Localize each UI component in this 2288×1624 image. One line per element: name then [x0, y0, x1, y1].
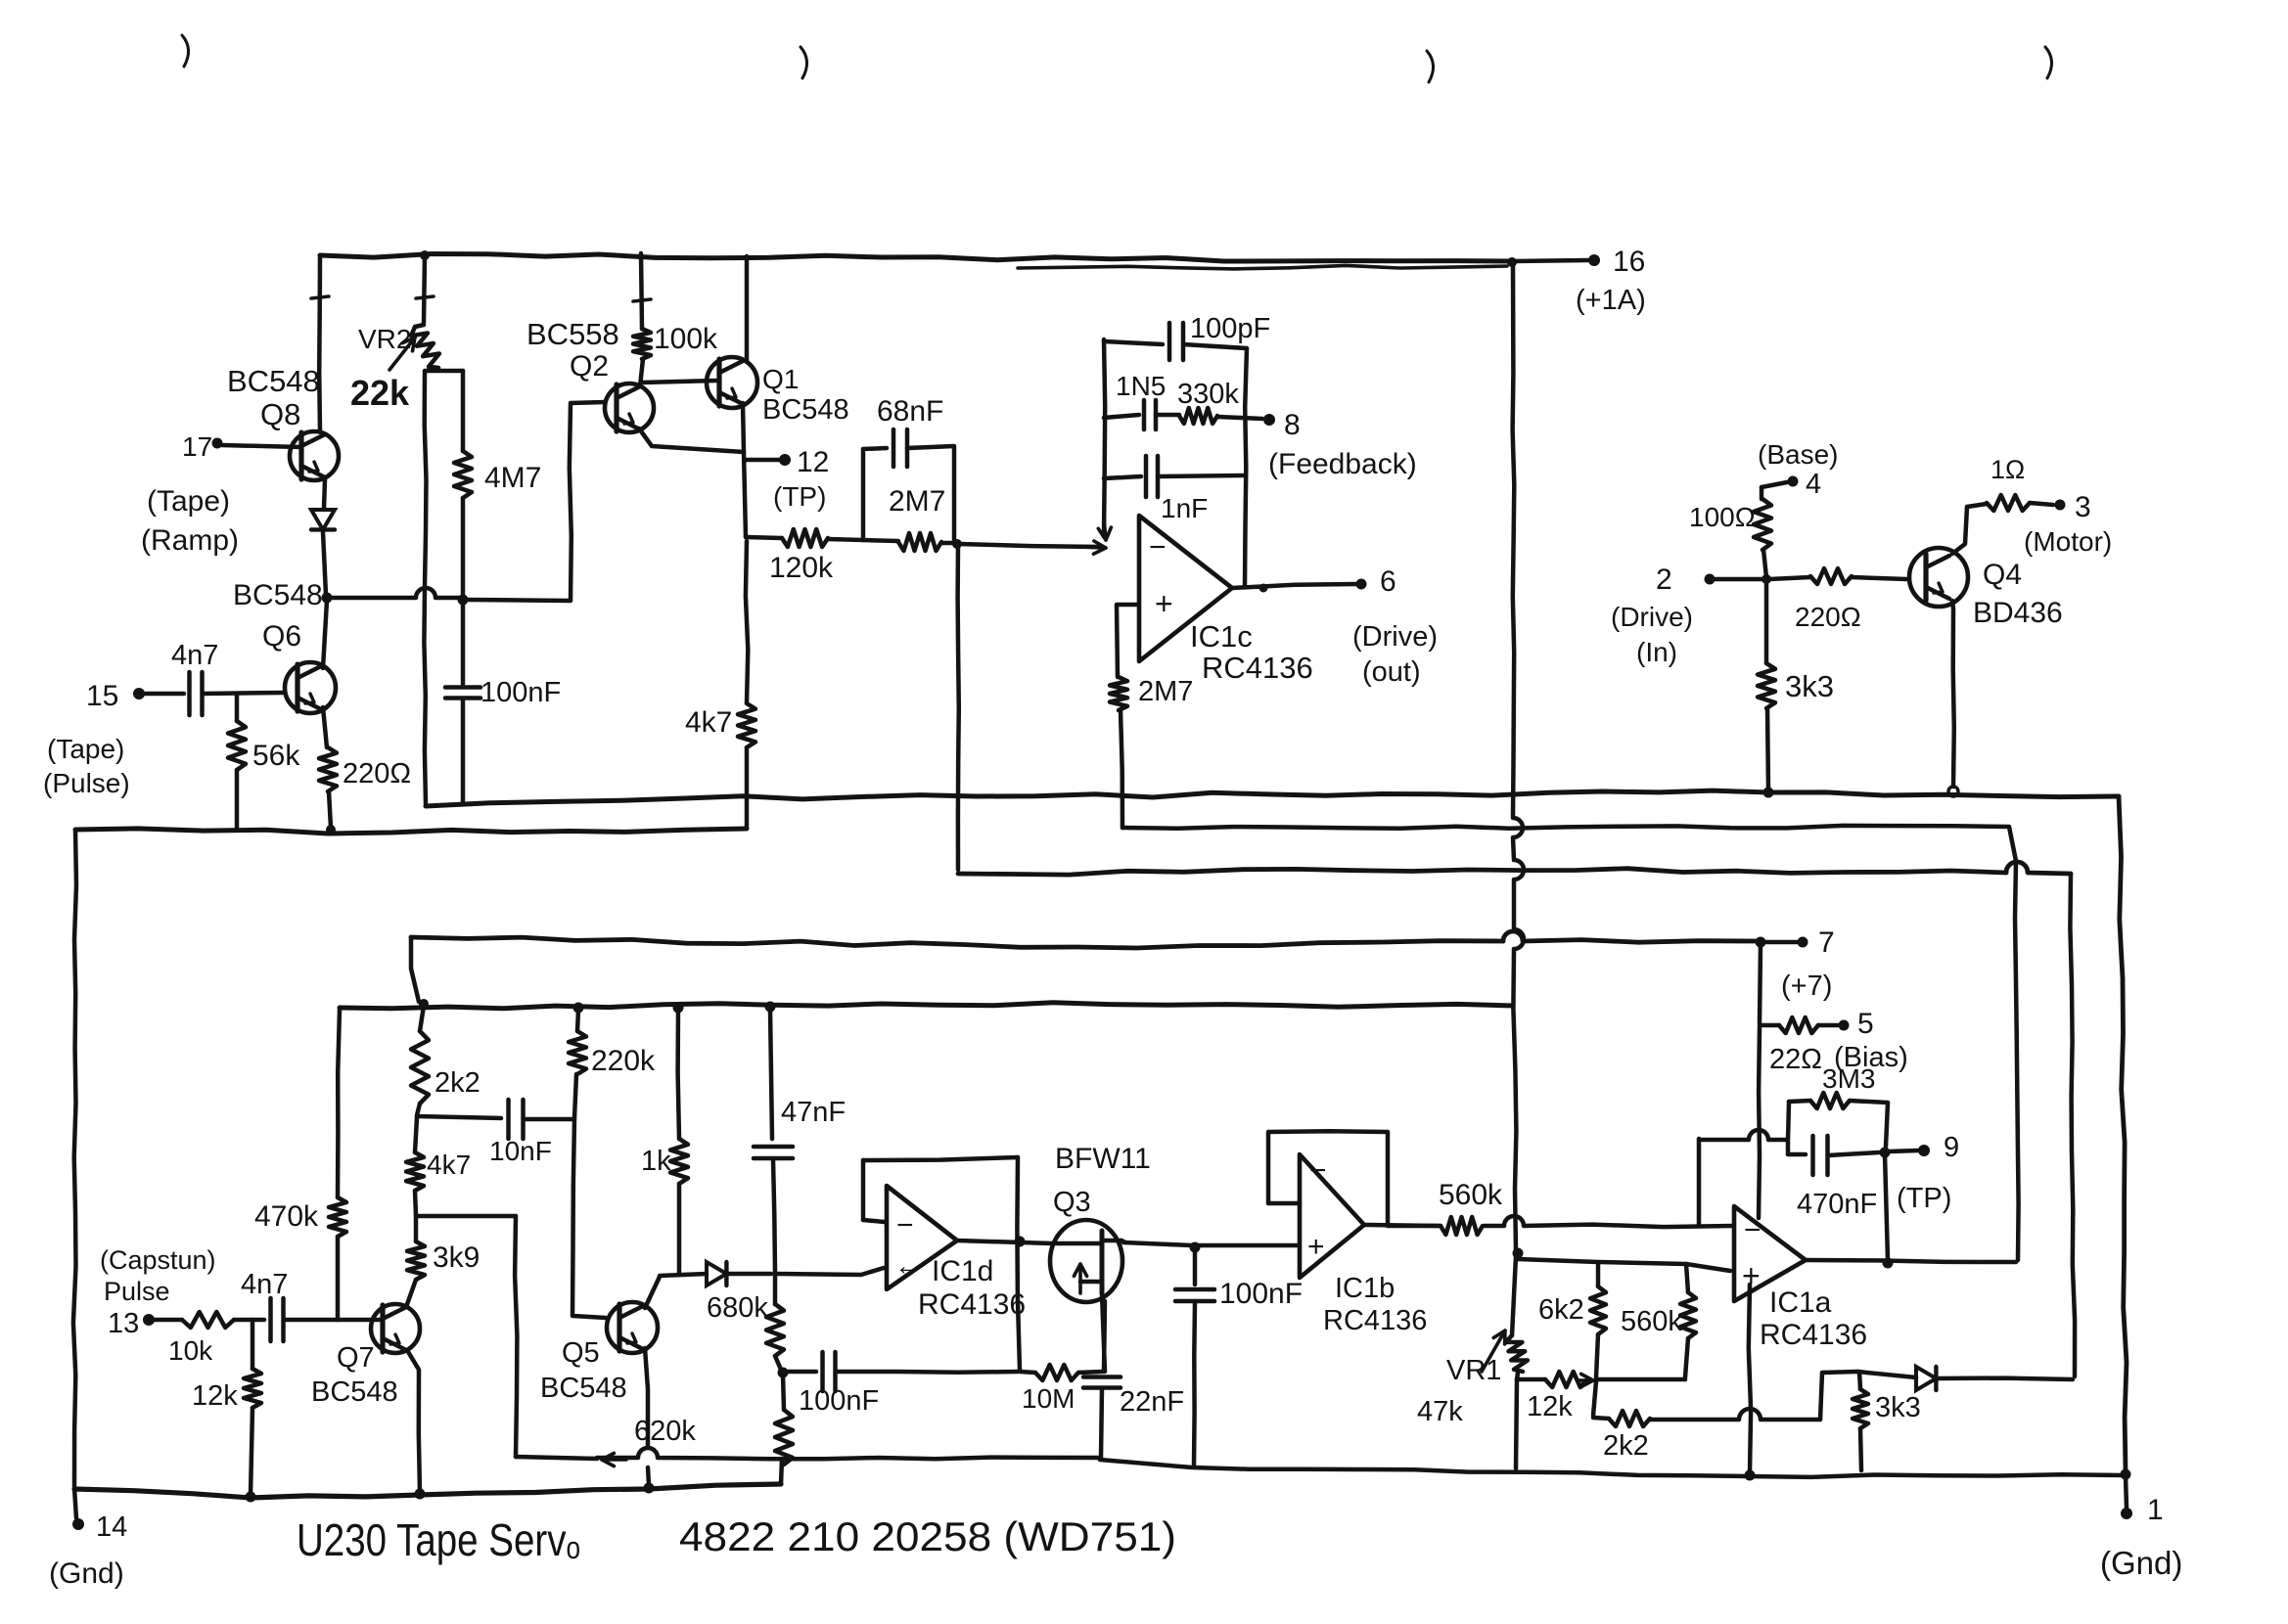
svg-text:Q2: Q2: [570, 350, 609, 383]
resistor 1R: [1967, 455, 2053, 511]
resistor 3M3: [1789, 1063, 1888, 1108]
svg-text:(Drive): (Drive): [1352, 621, 1438, 653]
resistor 330k: [1156, 379, 1239, 424]
svg-text:680k: 680k: [707, 1292, 768, 1324]
wire 2k2 to 10nF row: [417, 1104, 420, 1115]
op-amp IC1d: [887, 1186, 957, 1289]
wire bus G to bus F link: [781, 1459, 782, 1484]
label capstan pulse: [100, 1245, 216, 1306]
svg-text:4k7: 4k7: [427, 1150, 471, 1180]
resistor 120k: [746, 529, 834, 584]
wire junction to 100nF: [461, 602, 466, 684]
wire fb row1 left: [1104, 415, 1139, 418]
node bus G 12k: [246, 1492, 256, 1503]
resistor 620k: [634, 1375, 793, 1465]
node bus A bottom junction: [2121, 1469, 2131, 1480]
wire 4k7 to 3k9: [415, 1191, 416, 1216]
svg-text:(Drive): (Drive): [1611, 602, 1693, 632]
op-amp IC1c: [1139, 516, 1232, 661]
wire Q5 collector: [645, 1277, 660, 1308]
capacitor 100nF upper-left: [445, 677, 561, 708]
wire plus7 riser: [1760, 944, 1761, 1023]
wire 22nF to bus F: [1101, 1388, 1102, 1458]
wire pin7 stub: [1764, 940, 1797, 945]
node Q3 100nF junction: [1190, 1242, 1201, 1253]
svg-text:(Capstun): (Capstun): [100, 1245, 216, 1275]
svg-text:22k: 22k: [350, 373, 410, 413]
wire 16-column: [1513, 264, 1524, 1250]
label IC1a minus: [1744, 1214, 1762, 1246]
capacitor 100nF IC1b: [1175, 1248, 1303, 1466]
svg-text:4: 4: [1806, 469, 1821, 500]
wire Q8 emitter to diode: [324, 479, 325, 509]
svg-text:3: 3: [2075, 491, 2091, 523]
svg-text:(In): (In): [1636, 637, 1677, 667]
svg-text:IC1b: IC1b: [1335, 1273, 1395, 1304]
wire 330k to pin8: [1217, 417, 1262, 419]
node bus E blob: [419, 999, 429, 1009]
resistor 56k: [228, 694, 300, 772]
wire fb top right: [1183, 344, 1247, 348]
svg-text:Q4: Q4: [1983, 559, 2022, 591]
wire Q6 collector: [323, 601, 327, 668]
resistor 2k2 row: [1593, 1381, 1650, 1462]
node bus E 1k: [673, 1003, 684, 1014]
node 680k 100nF junction: [778, 1368, 789, 1378]
terminal pin 14: [49, 1511, 127, 1590]
svg-text:22Ω: 22Ω: [1769, 1044, 1822, 1075]
label IC1c plus: [1155, 586, 1173, 621]
wire IC1d fb left: [863, 1160, 885, 1222]
wire Q2 collector to 100k: [640, 359, 643, 386]
wire diode to node: [323, 532, 326, 595]
wire top +1A rail: [320, 254, 1512, 269]
mark tick a: [311, 296, 329, 298]
node 2M7/busC junction: [952, 539, 962, 549]
wire to IC1c minus input: [959, 541, 1106, 554]
resistor 100k: [633, 323, 718, 359]
resistor 12k lower: [192, 1320, 261, 1412]
transistor Q7: [371, 1304, 420, 1353]
op-amp IC1a: [1734, 1206, 1806, 1301]
capacitor 100nF lower: [785, 1352, 1018, 1417]
wire 3M3 box left: [1788, 1102, 1789, 1141]
svg-text:2M7: 2M7: [889, 485, 945, 518]
terminal pin 8: [1263, 409, 1417, 480]
wire pin2 to base node: [1715, 577, 1763, 582]
mark artifact 4: [2045, 47, 2052, 78]
wire IC1d fb right: [1017, 1157, 1020, 1370]
svg-text:6k2: 6k2: [1538, 1294, 1584, 1326]
svg-text:(Base): (Base): [1758, 439, 1838, 470]
wire Q8 collector riser: [317, 255, 322, 431]
node 220R bus junction: [326, 825, 336, 835]
label IC1c name: [1190, 619, 1313, 685]
wire Q6 emitter: [323, 707, 327, 747]
svg-text:3k3: 3k3: [1875, 1392, 1921, 1423]
svg-text:10M: 10M: [1022, 1383, 1075, 1414]
svg-text:(TP): (TP): [773, 481, 826, 512]
wire bus D: [411, 931, 1757, 1002]
svg-text:47nF: 47nF: [781, 1097, 846, 1128]
resistor 22R: [1760, 1017, 1908, 1075]
node IC1c out fb: [1259, 584, 1268, 593]
svg-text:Q7: Q7: [337, 1342, 375, 1374]
svg-text:4n7: 4n7: [241, 1269, 288, 1300]
svg-text:BC548: BC548: [233, 579, 323, 611]
svg-text:IC1a: IC1a: [1769, 1286, 1832, 1319]
op-amp IC1b: [1300, 1154, 1364, 1278]
svg-text:BC548: BC548: [540, 1373, 627, 1404]
wire 12k to bus G: [251, 1408, 252, 1496]
svg-text:470nF: 470nF: [1797, 1189, 1877, 1220]
mark tick b: [416, 296, 434, 298]
terminal pin 15: [86, 680, 145, 712]
svg-text:100nF: 100nF: [480, 677, 561, 708]
svg-text:22nF: 22nF: [1120, 1386, 1184, 1418]
svg-text:4M7: 4M7: [484, 462, 541, 494]
label title: [297, 1513, 1176, 1565]
svg-text:+: +: [1155, 586, 1173, 621]
svg-text:560k: 560k: [1439, 1179, 1503, 1211]
svg-text:BC558: BC558: [526, 317, 619, 351]
svg-text:17: 17: [182, 431, 212, 462]
svg-text:RC4136: RC4136: [1760, 1319, 1867, 1351]
svg-text:9: 9: [1944, 1132, 1959, 1163]
label tape pulse: [43, 734, 130, 798]
wire bus F: [516, 1448, 2124, 1477]
terminal pin 1: [2100, 1494, 2182, 1581]
wire IC1b fb box: [1268, 1131, 1388, 1225]
wire IC1a minus branch up: [1699, 1130, 1787, 1224]
capacitor 22nF: [1083, 1377, 1184, 1419]
mark tick c: [633, 299, 651, 301]
node plus riser bus F: [1745, 1470, 1756, 1481]
svg-text:RC4136: RC4136: [1202, 651, 1313, 685]
node rail-VR2 junction: [420, 250, 430, 260]
node Q8/Q6/ramp junction: [322, 593, 333, 604]
svg-text:IC1d: IC1d: [932, 1255, 993, 1287]
wire 10k to 4n7: [234, 1318, 264, 1323]
resistor 6k2: [1538, 1262, 1606, 1377]
wire Q1 emitter down: [743, 403, 744, 452]
wire node to Q2 base: [329, 588, 460, 598]
wire 1k to diode row: [677, 1184, 682, 1275]
wire Q2 emitter to Q1 emitter node: [639, 429, 744, 452]
terminal pin 2: [1611, 564, 1716, 667]
svg-text:−: −: [896, 1209, 914, 1241]
mark artifact 1: [182, 35, 189, 67]
resistor 560k: [1439, 1179, 1503, 1235]
wire fb row2 left: [1104, 476, 1141, 478]
wire pin4 stub: [1762, 482, 1787, 487]
svg-text:(Tape): (Tape): [147, 485, 230, 518]
wire Q1 collector riser: [745, 256, 750, 362]
wire 2M7 lower to bus B: [1121, 710, 1122, 828]
svg-text:560k: 560k: [1621, 1306, 1682, 1337]
wire Q4 emitter: [1952, 601, 1954, 787]
svg-text:620k: 620k: [634, 1416, 696, 1447]
wire pin17 to Q8 base: [222, 445, 301, 447]
wire 10M to Q3 source: [1104, 1301, 1105, 1372]
svg-text:220Ω: 220Ω: [1795, 602, 1861, 632]
wire fb row2 right: [1158, 475, 1243, 476]
svg-text:120k: 120k: [769, 552, 834, 584]
label Q5 type: [540, 1337, 627, 1404]
capacitor 4n7 upper: [171, 640, 218, 715]
svg-text:220k: 220k: [591, 1045, 656, 1077]
svg-text:16: 16: [1613, 246, 1645, 278]
svg-text:220Ω: 220Ω: [343, 758, 411, 789]
svg-text:(Gnd): (Gnd): [2100, 1545, 2182, 1581]
svg-text:100pF: 100pF: [1190, 313, 1270, 344]
svg-text:−: −: [1744, 1214, 1762, 1246]
label Q7 type: [311, 1342, 398, 1408]
terminal pin 5: [1839, 1008, 1874, 1040]
wire pin9 stub: [1889, 1150, 1918, 1151]
wire IC1c plus L: [1117, 605, 1137, 677]
resistor 1k: [641, 1010, 688, 1184]
svg-text:Q8: Q8: [260, 397, 300, 431]
resistor 680k: [766, 1276, 784, 1356]
svg-text:−: −: [1149, 531, 1167, 564]
svg-text:2: 2: [1656, 564, 1672, 596]
resistor 12k row: [1517, 1372, 1593, 1422]
wire fb right vertical: [1245, 348, 1247, 587]
svg-text:100k: 100k: [654, 323, 718, 355]
wire bias riser lower: [1759, 1027, 1760, 1218]
svg-text:10nF: 10nF: [489, 1136, 552, 1166]
svg-text:BFW11: BFW11: [1055, 1143, 1151, 1175]
label 680k: [707, 1292, 768, 1324]
resistor 220R: [319, 747, 411, 791]
svg-text:(+1A): (+1A): [1576, 285, 1646, 316]
resistor 4k7 lower: [406, 1117, 471, 1191]
node pin2 100R junction: [1762, 574, 1771, 584]
diode D Q8 emitter: [311, 510, 335, 529]
svg-text:12k: 12k: [192, 1380, 238, 1412]
node VR1 top junction: [1513, 1248, 1524, 1259]
wire Q2 collector to Q1 base: [642, 381, 716, 383]
wire 100k top riser: [641, 253, 642, 329]
svg-text:IC1c: IC1c: [1190, 619, 1253, 654]
wire Q3 source down: [1102, 1293, 1105, 1372]
svg-text:(Pulse): (Pulse): [43, 768, 130, 798]
label Q2 type: [526, 317, 619, 383]
resistor 220k: [569, 1010, 656, 1077]
wire VR2 top riser: [424, 255, 425, 323]
svg-text:100nF: 100nF: [799, 1385, 879, 1417]
label IC1d minus: [896, 1209, 914, 1241]
wire Q4 collector: [1952, 507, 1967, 554]
wire Q3 drain to IC1b plus: [1123, 1242, 1192, 1245]
svg-text:470k: 470k: [254, 1200, 319, 1233]
transistor Q6: [285, 662, 336, 713]
terminal pin 12: [773, 446, 829, 512]
wire 3M3 box right: [1886, 1103, 1888, 1147]
capacitor 1nF: [1146, 456, 1208, 523]
wire 47nF to diode row: [773, 1159, 775, 1273]
resistor 10M: [1020, 1365, 1103, 1414]
svg-text:14: 14: [96, 1511, 127, 1543]
resistor 3k3 q4: [1758, 581, 1834, 790]
wire VR2 wiper to 4M7 top: [426, 369, 463, 374]
svg-text:+: +: [1307, 1231, 1325, 1263]
terminal pin 3: [2024, 491, 2112, 557]
label IC1d name: [918, 1255, 1026, 1321]
svg-text:VR1: VR1: [1446, 1355, 1501, 1386]
svg-text:BD436: BD436: [1973, 597, 2063, 629]
terminal pin 17: [182, 431, 223, 462]
wire Q5 emitter to bus G: [648, 1467, 649, 1485]
node bus E 220k: [573, 1003, 584, 1014]
wire 220R to bus Y1: [329, 791, 331, 828]
label IC1a plus: [1742, 1258, 1761, 1293]
transistor Q1: [707, 357, 757, 408]
node 4M7/ramp wire junction: [458, 595, 469, 606]
wire fb box top: [1104, 341, 1163, 344]
wire VR1 to 12k row: [1517, 1373, 1518, 1379]
label IC1b name: [1323, 1273, 1427, 1336]
label tape ramp: [141, 485, 239, 557]
capacitor 100pF: [1169, 313, 1270, 360]
label Q3: [1053, 1143, 1151, 1218]
wire IC1c output: [1232, 584, 1356, 588]
svg-text:4k7: 4k7: [685, 706, 732, 739]
svg-text:2M7: 2M7: [1138, 676, 1193, 707]
node bus A 3k3: [1763, 788, 1774, 798]
wire IC1b output: [1364, 1225, 1439, 1226]
node IC1d out fb: [1015, 1237, 1026, 1247]
svg-text:100nF: 100nF: [1219, 1278, 1303, 1310]
svg-text:(Gnd): (Gnd): [49, 1557, 124, 1590]
svg-text:1Ω: 1Ω: [1991, 455, 2025, 484]
svg-text:3k3: 3k3: [1785, 669, 1834, 703]
svg-text:6: 6: [1380, 565, 1396, 598]
wire IC1a minus input: [1485, 1216, 1732, 1227]
svg-text:1k: 1k: [641, 1146, 671, 1177]
mark artifact 3: [1427, 51, 1434, 82]
label IC1a name: [1760, 1286, 1867, 1351]
node rail junction at 16 branch: [1507, 257, 1517, 267]
svg-text:10k: 10k: [168, 1335, 213, 1366]
wire 4n7 to Q6 base: [203, 693, 284, 694]
svg-text:68nF: 68nF: [877, 395, 943, 428]
svg-text:7: 7: [1818, 926, 1835, 959]
label IC1d plus: [894, 1250, 922, 1281]
wire diode row to IC1d plus: [777, 1268, 884, 1275]
wire fb to IC1a output: [1885, 1154, 1888, 1260]
svg-text:8: 8: [1284, 409, 1301, 441]
node IC1a out: [1883, 1258, 1894, 1269]
wire IC1b plus wire: [1195, 1243, 1297, 1248]
wire 3k9 row to bus F riser: [416, 1214, 516, 1219]
wire 2k2 to 3k3 row: [1650, 1372, 1857, 1420]
wire 4n7 to Q7 base: [284, 1318, 380, 1323]
capacitor 1n5: [1116, 371, 1166, 429]
label Q4 type: [1973, 559, 2063, 629]
svg-text:(Ramp): (Ramp): [141, 524, 239, 557]
svg-text:56k: 56k: [252, 740, 300, 772]
wire 100nF to bus A: [461, 699, 466, 804]
resistor 3k9: [407, 1216, 480, 1280]
wire left edge vertical: [73, 830, 76, 1486]
svg-text:1N5: 1N5: [1116, 371, 1166, 401]
capacitor 470nF: [1788, 1136, 1879, 1220]
wire Q5 emitter: [645, 1348, 648, 1446]
terminal pin 9: [1897, 1132, 1959, 1214]
svg-text:BC548: BC548: [762, 394, 849, 426]
resistor 220R q4: [1769, 568, 1906, 632]
terminal pin 7: [1781, 926, 1835, 1002]
wire 4k7 to bus Y1: [745, 747, 750, 828]
node bus G Q5: [644, 1483, 655, 1494]
wire 120k to 2M7: [828, 539, 898, 541]
wire IC1d fb top: [863, 1157, 1018, 1160]
svg-text:5: 5: [1857, 1008, 1874, 1040]
svg-text:100Ω: 100Ω: [1689, 502, 1756, 532]
resistor 2M7 lower: [1110, 676, 1193, 710]
svg-text:(TP): (TP): [1897, 1183, 1951, 1214]
node bus D pin7 junction: [1756, 937, 1766, 948]
wire 220k column to Q5 base: [572, 1118, 606, 1318]
diode D Q5: [707, 1262, 771, 1286]
wire busC riser: [958, 545, 959, 870]
wire 2M7 to IC1c minus: [941, 541, 955, 546]
svg-text:Pulse: Pulse: [104, 1277, 170, 1306]
svg-text:BC548: BC548: [311, 1376, 398, 1408]
label Q1 type: [762, 364, 849, 426]
wire bus E: [340, 1003, 1513, 1009]
diode D IC1a: [1857, 1367, 2073, 1390]
potentiometer VR2 22k: [350, 324, 439, 413]
wire 470k to Q7 base wire: [336, 1237, 341, 1320]
wire IC1b out to 560k: [1388, 1224, 1441, 1229]
wire pin15 to 4n7: [144, 692, 184, 697]
svg-text:3M3: 3M3: [1822, 1063, 1875, 1094]
resistor 4k7 upper: [685, 541, 755, 747]
svg-text:4n7: 4n7: [171, 640, 218, 671]
svg-text:(Motor): (Motor): [2024, 526, 2112, 557]
node bus G Q7: [415, 1489, 426, 1500]
wire 47nF riser: [770, 1009, 772, 1139]
potentiometer VR1 47k: [1417, 1256, 1528, 1427]
svg-text:13: 13: [108, 1308, 139, 1339]
resistor 560k second: [1621, 1264, 1696, 1377]
svg-text:(+7): (+7): [1781, 970, 1832, 1002]
terminal pin 6: [1352, 565, 1438, 688]
wire bus C: [958, 862, 2075, 1376]
svg-text:(out): (out): [1362, 656, 1421, 688]
wire emitter node down to 120k row: [744, 452, 746, 537]
transistor Q4: [1909, 548, 1968, 607]
wire 680k to 100nF node: [775, 1356, 781, 1370]
terminal pin 16: [1576, 246, 1646, 316]
node bus A Q4 emitter: [1948, 787, 1958, 796]
transistor Q3 BFW11: [1050, 1220, 1125, 1302]
svg-text:1: 1: [2147, 1494, 2164, 1526]
wire rail to pin 16: [1512, 260, 1587, 261]
wire IC1a output: [1806, 1260, 2016, 1262]
mark artifact 2: [801, 47, 807, 78]
wire 12 stub: [745, 458, 779, 463]
svg-text:RC4136: RC4136: [1323, 1305, 1427, 1336]
wire 56k to bus Y1: [235, 770, 240, 828]
label IC1b minus: [1309, 1154, 1327, 1187]
node 470nF out junction: [1880, 1148, 1891, 1158]
label Q8 type: [227, 364, 320, 431]
resistor 10k: [154, 1312, 234, 1366]
